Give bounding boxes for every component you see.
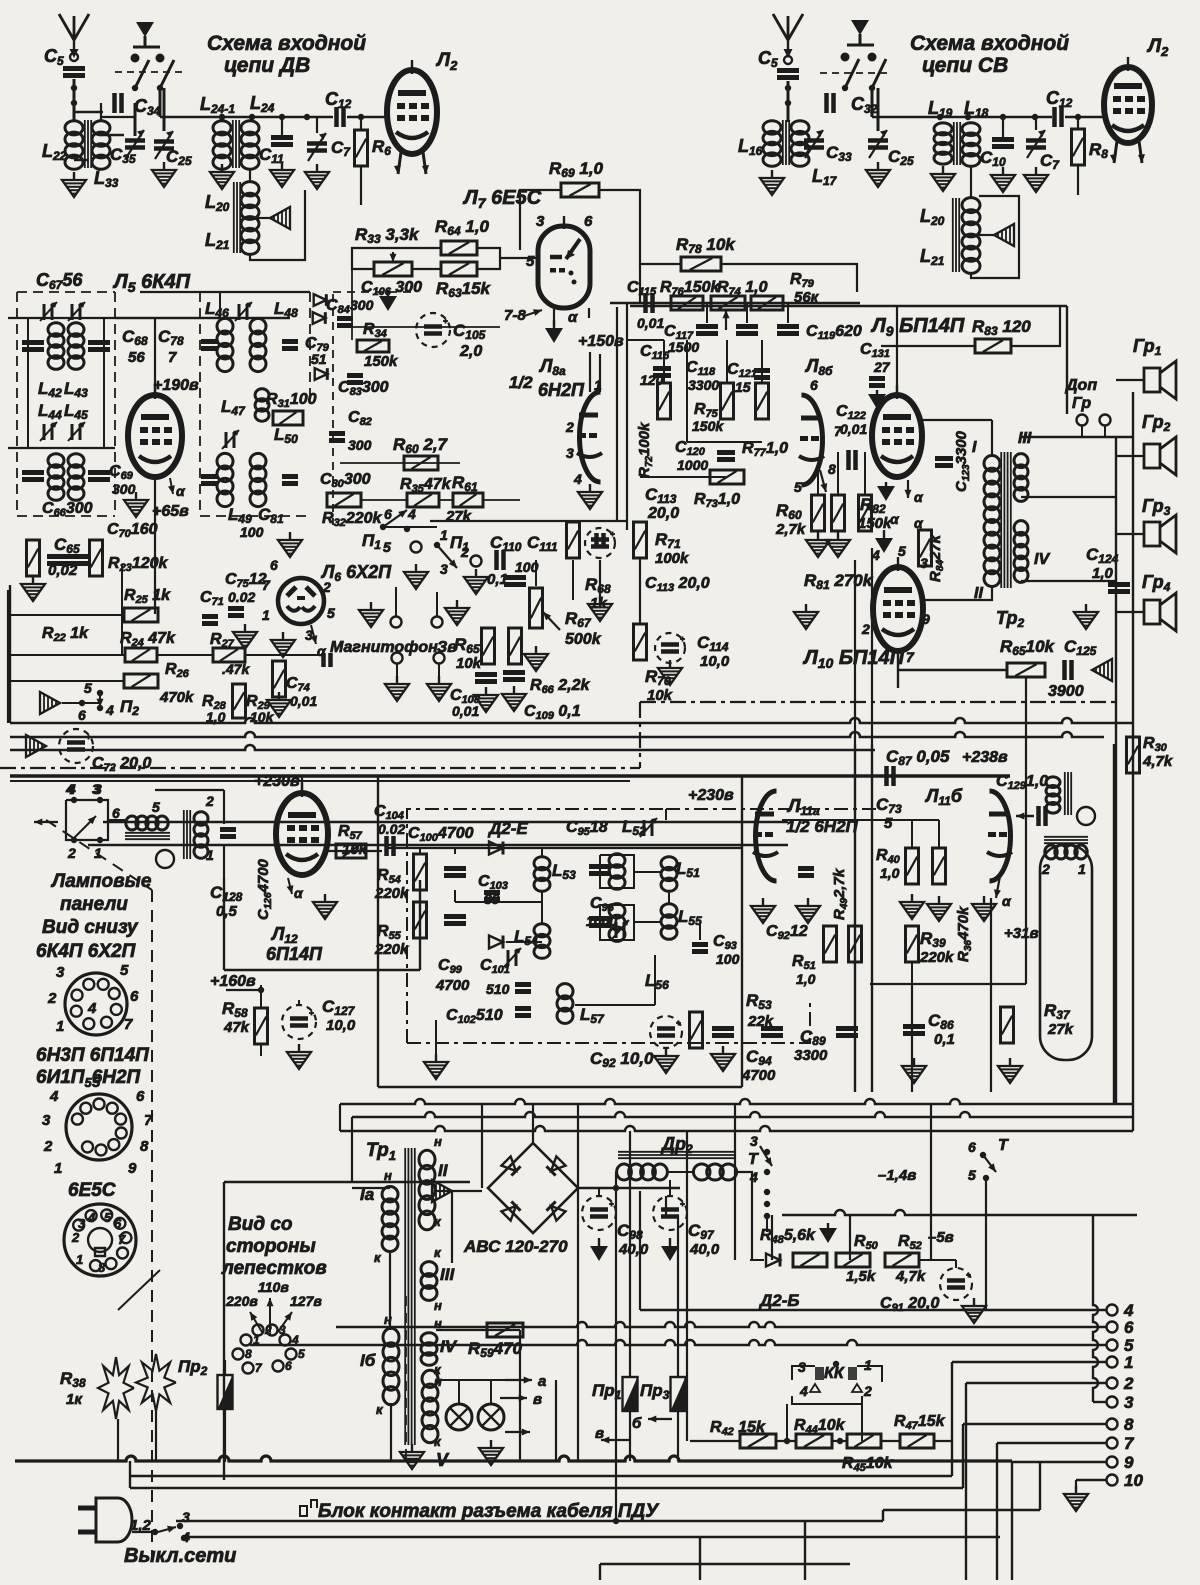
capacitor L48: [282, 342, 298, 349]
svg-text:Вид со: Вид со: [228, 1214, 293, 1235]
trimmer c: [40, 422, 57, 441]
phono core: [1044, 837, 1088, 843]
svg-text:R68​: R68​: [585, 575, 611, 596]
resistor R76: [671, 296, 703, 310]
capacitor C74 box: [273, 661, 286, 697]
svg-text:6И1П5​6Н2П: 6И1П5​6Н2П: [36, 1067, 141, 1090]
junction: [404, 526, 410, 532]
terminal 1: [1107, 1357, 1118, 1368]
loudspeaker Gr1: [1144, 361, 1176, 399]
potentiometer R67: [530, 588, 543, 628]
arrow R33: [390, 252, 397, 262]
svg-text:C93​: C93​: [713, 933, 737, 952]
svg-text:Гр3​: Гр3​: [1142, 496, 1171, 518]
svg-text:9: 9: [1124, 1453, 1134, 1472]
capacitor C119: [777, 327, 799, 334]
wire switch DV: [144, 36, 147, 47]
detector dash box b: [665, 809, 667, 820]
svg-text:R65​10k: R65​10k: [1000, 637, 1056, 658]
contact P1 c2: [471, 556, 482, 567]
ground under L7: [545, 320, 563, 343]
svg-text:L33​: L33​: [94, 168, 119, 190]
svg-text:220k: 220k: [919, 949, 954, 966]
svg-text:L47​: L47​: [221, 397, 246, 418]
junction: [71, 100, 77, 106]
capacitor C5: [63, 69, 85, 76]
bridge diamond: [488, 1143, 578, 1233]
selector contact 8: [233, 1349, 244, 1360]
coil L49: [217, 453, 233, 506]
dashed box L46 right: [309, 292, 311, 400]
svg-text:R61​: R61​: [452, 473, 478, 494]
wire C34 to C35: [103, 134, 124, 136]
wire R40 top: [911, 820, 913, 848]
wire L21 loop DV: [250, 190, 305, 260]
selector contact 7: [243, 1363, 254, 1374]
arrow v: [601, 1437, 630, 1444]
fuse Pr1: [623, 1377, 638, 1411]
capacitor mid b: [589, 919, 611, 926]
wire L20 tap SV: [979, 234, 994, 236]
wire T2 down: [985, 1178, 987, 1310]
svg-text:7: 7: [118, 1232, 126, 1247]
svg-text:R26​: R26​: [165, 661, 190, 680]
wire R75b v: [761, 340, 763, 384]
wire R42-R44: [777, 1440, 796, 1442]
switch bar DV: [133, 46, 160, 49]
svg-text:лепестков: лепестков: [221, 1258, 327, 1279]
junction: [764, 1169, 770, 1175]
ground mid: [972, 896, 996, 921]
svg-text:C105​: C105​: [453, 321, 486, 342]
svg-text:8: 8: [1124, 1415, 1134, 1434]
svg-text:C5​: C5​: [758, 48, 778, 70]
wire L46 top: [219, 292, 221, 320]
svg-text:8: 8: [140, 1138, 149, 1155]
coil L22 primary: [65, 121, 83, 170]
ground R81: [794, 604, 818, 629]
wire terminal 9 v: [1011, 1462, 1013, 1580]
svg-text:L18​: L18​: [964, 98, 989, 120]
svg-text:R73​1,0: R73​1,0: [694, 491, 740, 510]
svg-text:Гр2​: Гр2​: [1142, 412, 1171, 434]
coil L45 low: [68, 454, 84, 501]
resistor R58: [255, 1008, 268, 1044]
svg-text:1,0: 1,0: [1092, 565, 1114, 582]
svg-text:α: α: [176, 483, 186, 499]
left bus vertical: [9, 585, 11, 723]
ground L50: [278, 532, 302, 557]
svg-text:510: 510: [486, 981, 510, 997]
core L24: [233, 120, 239, 168]
svg-text:Л6​ 6Х2П: Л6​ 6Х2П: [320, 562, 392, 584]
svg-text:L56​: L56​: [645, 971, 669, 992]
ground C94b: [711, 1046, 735, 1071]
coil Tr2 III: [1014, 454, 1028, 502]
wire R83 left: [881, 345, 974, 347]
svg-text:C7​: C7​: [331, 138, 351, 159]
wire L5 top bus: [8, 317, 290, 319]
arrow L12 alpha: [287, 878, 294, 894]
wire +160v: [226, 989, 261, 991]
svg-text:40,0: 40,0: [689, 1241, 720, 1258]
wire L53 to L54: [541, 890, 543, 925]
svg-text:+238в: +238в: [962, 749, 1008, 766]
wire R24 left: [8, 654, 125, 656]
wire terminal 2 v: [965, 1383, 967, 1580]
wire Pr2 down: [224, 1409, 226, 1462]
capacitor C tuned a: [22, 343, 44, 350]
svg-text:6: 6: [136, 1088, 145, 1105]
wire cluster a: [351, 269, 353, 340]
svg-text:C87​ 0,05: C87​ 0,05: [886, 747, 950, 768]
wire C121a: [746, 303, 748, 323]
dashed vertical x406: [405, 1296, 407, 1458]
svg-text:R71​: R71​: [655, 530, 681, 551]
ground C124: [1074, 604, 1098, 629]
bottom bus 2: [130, 1475, 952, 1477]
svg-text:R59​470: R59​470: [468, 1339, 523, 1360]
wire L8a right: [616, 418, 618, 520]
svg-text:1: 1: [54, 1160, 62, 1177]
junction: [279, 114, 285, 120]
wire C119: [787, 303, 789, 323]
vertical bus x872: [871, 744, 873, 1092]
ground terminal 10: [1064, 1486, 1088, 1511]
arrow v out: [500, 1395, 527, 1402]
wire L22 top: [101, 116, 135, 118]
svg-text:2: 2: [47, 990, 57, 1007]
socket 9pin: [66, 1094, 132, 1160]
wire R38 arm: [118, 1270, 160, 1310]
jack wire 4: [438, 664, 440, 680]
jack contact 2: [392, 653, 403, 664]
wire -5v vertical: [930, 1104, 932, 1260]
svg-text:1000: 1000: [677, 457, 708, 473]
wire to C7 DV: [316, 117, 318, 133]
svg-text:L43​: L43​: [64, 379, 88, 400]
svg-text:+65в: +65в: [152, 503, 189, 520]
switch bar SV: [847, 44, 874, 47]
resistor R26: [124, 674, 158, 688]
svg-text:5: 5: [104, 1210, 112, 1225]
svg-text:R83​ 120: R83​ 120: [972, 317, 1031, 338]
switch arm T2: [983, 1155, 996, 1172]
svg-text:3: 3: [182, 1509, 190, 1525]
svg-text:R45​10k: R45​10k: [842, 1455, 894, 1474]
svg-text:R58​: R58​: [222, 999, 248, 1020]
selector contact 2: [253, 1325, 264, 1336]
wire KK-R45: [861, 1404, 863, 1441]
capacitor C102: [515, 1009, 531, 1016]
svg-text:20,0: 20,0: [647, 505, 679, 522]
svg-text:R38​: R38​: [60, 1369, 86, 1390]
ground above switch SV: [851, 20, 869, 35]
resistor R82a: [832, 495, 845, 531]
junction: [965, 114, 971, 120]
socket 6E5C center: [88, 1228, 112, 1256]
electrolytic C98: [582, 1196, 616, 1230]
resistor R73: [710, 470, 744, 484]
dashed box L46 left: [200, 292, 310, 516]
coil V: [422, 1370, 438, 1442]
ground L9: [877, 482, 895, 501]
svg-text:7: 7: [124, 1016, 133, 1033]
svg-text:Л8а​: Л8а​: [538, 356, 566, 378]
ground R48: [819, 1223, 837, 1243]
capacitor C121a: [736, 327, 758, 334]
svg-text:C104​: C104​: [374, 803, 404, 822]
svg-text:1,5k: 1,5k: [846, 1268, 876, 1285]
wire to C11: [281, 117, 283, 136]
wire can v: [223, 790, 225, 824]
wire R60a row: [340, 462, 460, 464]
svg-text:4: 4: [49, 1088, 59, 1105]
lamp b: [478, 1404, 504, 1430]
wire R35-R61: [440, 499, 452, 501]
resistor R68: [567, 522, 580, 558]
junction: [79, 700, 85, 706]
arrow 7-8: [524, 309, 542, 316]
core L22: [85, 120, 91, 168]
svg-text:R31​100: R31​100: [266, 391, 317, 410]
wire L7 pin right: [588, 308, 590, 318]
wire R61 right: [484, 499, 520, 501]
wire Gr2: [1116, 455, 1144, 457]
wire Tr2 top: [991, 420, 993, 457]
coil L50: [250, 453, 266, 506]
wire L51 to L55: [668, 890, 670, 905]
wire R73 row: [640, 476, 726, 478]
terminal 7: [1107, 1438, 1118, 1449]
svg-text:L24​: L24​: [250, 93, 275, 115]
chassis arrow II: [432, 1180, 452, 1202]
svg-text:C124​: C124​: [1086, 545, 1119, 566]
switch contact SV b: [868, 53, 877, 62]
resistor R34: [357, 340, 389, 352]
selector arm: [74, 816, 96, 838]
switch arm P2: [97, 695, 104, 707]
svg-text:2: 2: [1041, 861, 1050, 877]
svg-text:51: 51: [311, 351, 327, 367]
junction: [980, 1152, 986, 1158]
capacitor C87: [887, 766, 894, 786]
wire lamp a: [458, 1380, 460, 1404]
junction: [249, 114, 255, 120]
junction: [784, 1438, 790, 1444]
wire Dr2 mid: [666, 1171, 695, 1173]
wire C12 to tube: [347, 116, 388, 119]
svg-text:300: 300: [112, 481, 136, 497]
svg-text:+190в: +190в: [153, 377, 199, 394]
svg-text:2: 2: [863, 1383, 872, 1399]
resistor R63: [441, 262, 477, 276]
svg-text:Гр: Гр: [1072, 395, 1091, 412]
svg-text:2: 2: [861, 621, 870, 637]
svg-text:C119​620: C119​620: [806, 323, 862, 342]
svg-text:C81​: C81​: [258, 505, 284, 526]
svg-text:II: II: [438, 1161, 449, 1180]
right vertical bus inner: [1115, 437, 1117, 1104]
detector dash box a: [407, 809, 666, 1043]
svg-text:α: α: [1002, 893, 1012, 909]
ground R37b: [998, 1058, 1022, 1083]
resistor R79: [751, 296, 783, 310]
svg-text:C109​ 0,1: C109​ 0,1: [524, 703, 581, 722]
wire Dop a: [1081, 426, 1083, 437]
svg-text:4,7k: 4,7k: [1142, 753, 1173, 770]
svg-text:5: 5: [383, 539, 391, 555]
switch contact DV b: [156, 54, 165, 63]
svg-text:4: 4: [407, 506, 416, 522]
capacitor C94b: [712, 1029, 734, 1036]
tube L8b: [799, 395, 824, 485]
vertical x352: [351, 1117, 353, 1182]
svg-text:10: 10: [1124, 1471, 1143, 1490]
vertical x482: [481, 1104, 483, 1188]
ground L5 a: [21, 576, 45, 601]
resistor R61: [453, 493, 483, 507]
terminal 3: [1107, 1397, 1118, 1408]
arrow a out: [505, 1377, 532, 1384]
wire R54 top: [419, 848, 421, 854]
svg-text:III: III: [1018, 430, 1032, 447]
coil L54: [534, 924, 550, 959]
capacitor C12 SV: [1055, 107, 1062, 127]
capacitor C75: [228, 609, 244, 616]
svg-text:C34​: C34​: [134, 96, 161, 118]
capacitor C tuned c: [22, 473, 44, 480]
svg-text:н: н: [434, 1374, 442, 1389]
wire terminal 3 v: [1093, 1215, 1098, 1402]
ground under C7 SV: [1024, 167, 1048, 192]
ground C106: [379, 290, 397, 311]
variable capacitor C25 SV: [868, 130, 888, 158]
svg-text:150k: 150k: [692, 418, 724, 434]
wire terminal 7 v: [996, 1443, 998, 1580]
power bus y1104: [340, 1099, 1133, 1104]
svg-text:L44​: L44​: [38, 401, 62, 422]
svg-text:3: 3: [94, 781, 102, 797]
svg-text:300: 300: [348, 437, 372, 453]
svg-text:к: к: [376, 1402, 384, 1417]
wire KK bottom: [792, 1396, 862, 1404]
tube L2 SV: [1104, 57, 1152, 143]
tube L9: [872, 385, 922, 477]
wire mid to L51: [634, 871, 661, 873]
wire diode2 out: [506, 941, 542, 943]
loudspeaker Gr4: [1144, 593, 1176, 631]
svg-text:Гр4​: Гр4​: [1142, 572, 1171, 594]
svg-text:40,0: 40,0: [618, 1241, 649, 1258]
svg-text:2,7k: 2,7k: [775, 521, 806, 538]
PDU staircase h: [883, 1509, 1040, 1511]
svg-text:L17​: L17​: [812, 166, 838, 188]
svg-text:Пр3​: Пр3​: [640, 1381, 670, 1402]
wire R67 top: [535, 560, 537, 586]
svg-text:+160в: +160в: [210, 973, 256, 990]
wire to C7 SV: [1035, 117, 1037, 130]
svg-text:R63​15k: R63​15k: [436, 279, 492, 300]
bottom bus 3: [130, 1487, 963, 1489]
svg-text:к: к: [434, 1214, 442, 1229]
svg-text:Т: Т: [748, 1151, 759, 1168]
coil L55: [661, 904, 677, 940]
capacitor C120: [717, 453, 735, 460]
svg-text:R66​ 2,2k: R66​ 2,2k: [530, 677, 591, 696]
wire L24 to L20: [249, 168, 251, 183]
switch dashed line SV: [820, 72, 890, 74]
KK tri b: [852, 1384, 862, 1392]
wire to C34: [74, 111, 103, 113]
svg-text:Тр1​: Тр1​: [366, 1140, 396, 1163]
svg-text:220k: 220k: [374, 885, 409, 902]
wire R32-R35: [362, 499, 406, 501]
svg-text:C89​: C89​: [800, 1027, 826, 1048]
svg-text:2: 2: [43, 1138, 53, 1155]
coil L16: [763, 121, 781, 167]
capacitor C84: [337, 319, 353, 326]
svg-text:+230в: +230в: [254, 773, 300, 790]
svg-text:Л8б​: Л8б​: [804, 356, 833, 378]
svg-text:4: 4: [871, 547, 880, 563]
main wire SV: [872, 116, 1052, 119]
ground R40b: [927, 896, 951, 921]
svg-text:100: 100: [240, 524, 264, 540]
right vertical bus outer: [1132, 392, 1134, 1104]
wire L8a top: [589, 352, 591, 392]
wire KK l: [792, 1366, 815, 1380]
wire C127 top: [298, 1000, 300, 1005]
ground L11a b: [796, 898, 820, 923]
ground R82a: [826, 532, 850, 557]
svg-text:6: 6: [810, 377, 818, 393]
svg-text:2: 2: [460, 544, 469, 560]
jack contact 1: [391, 617, 402, 628]
svg-text:C82​: C82​: [348, 409, 372, 428]
ground C97: [661, 1238, 679, 1261]
junction: [764, 1213, 770, 1219]
junction: [785, 100, 791, 106]
svg-text:220k: 220k: [374, 941, 409, 958]
vertical x452: [451, 1191, 453, 1263]
svg-text:1: 1: [76, 1252, 83, 1267]
svg-text:6: 6: [584, 213, 593, 230]
capacitor C tuned d: [88, 473, 110, 480]
wire R8 down SV: [1077, 165, 1079, 195]
svg-text:Схема входной: Схема входной: [910, 32, 1069, 55]
vertical x991: [990, 898, 992, 1092]
svg-text:4: 4: [573, 471, 582, 487]
wire C113 down: [599, 560, 601, 600]
junction: [132, 85, 138, 91]
ground P1 b: [404, 564, 428, 589]
KK tri a: [810, 1384, 820, 1392]
svg-text:Л12​: Л12​: [270, 924, 298, 946]
wire L56 stem: [654, 955, 656, 1005]
wire R82b top: [864, 452, 866, 495]
arrow R74: [723, 310, 730, 330]
tube L11b: [987, 791, 1012, 881]
wire cathode to R65: [898, 669, 1006, 671]
svg-text:C83​300: C83​300: [338, 379, 389, 398]
resistor R83: [975, 339, 1011, 353]
wire R52 out: [919, 1259, 956, 1261]
svg-text:C103​: C103​: [478, 873, 508, 892]
wire R27 right: [245, 654, 280, 656]
ground C113: [588, 596, 612, 621]
selector contact 5: [286, 1349, 297, 1360]
